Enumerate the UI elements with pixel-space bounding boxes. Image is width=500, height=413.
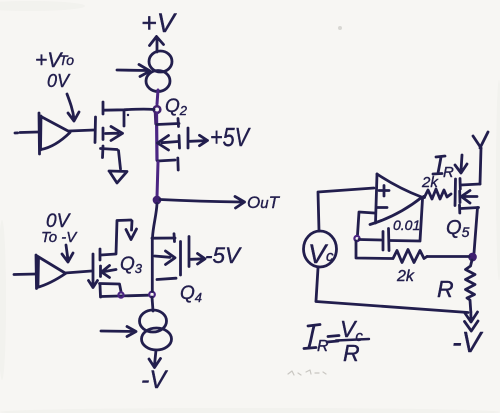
arrow IR (current direction) (455, 155, 467, 173)
wire Q1 drain to node A (104, 109, 154, 110)
resistor 2k (gate) (425, 189, 451, 199)
wire current source I1 to node A (157, 90, 158, 104)
current source I1 (117, 51, 172, 92)
svg-text:+V: +V (141, 8, 178, 38)
svg-text:OuT: OuT (247, 193, 281, 212)
annotation arrow to inverter U2 (62, 245, 73, 262)
wire Vc top to op-amp + input (318, 188, 374, 231)
wire Q5 source down to node E (474, 208, 478, 254)
wire Q2 source down to OUT node (157, 162, 158, 197)
annotation 0V To -V (41, 211, 78, 246)
gate arrow to -5V (191, 254, 205, 265)
label 2k (feedback) (396, 268, 415, 285)
wire U2 output to Q3 gate (65, 271, 92, 273)
formula IR = Vc / R (304, 316, 369, 366)
wire OUT with arrow (160, 197, 245, 209)
wire OUT node down to Q4 drain (153, 204, 158, 238)
label Q2 (165, 96, 188, 118)
op-amp U3 (370, 174, 422, 225)
mosfet Q1 (95, 102, 124, 158)
label Q4 (180, 283, 202, 305)
mosfet Q5 (455, 179, 480, 214)
label R (437, 276, 454, 302)
arrow to -V (double head) (465, 312, 479, 331)
svg-text:R: R (343, 340, 360, 366)
inverter U1 (39, 113, 70, 154)
arrow to +V (150, 37, 164, 53)
svg-text:R: R (317, 338, 329, 355)
label +5V (210, 122, 251, 152)
label OUT (247, 193, 281, 212)
label Q3 (120, 254, 143, 276)
wire U1 output to Q1 gate (69, 130, 94, 131)
wire node D to capacitor (359, 238, 381, 241)
wire Vc bottom to rail (316, 268, 318, 301)
label -V (right) (452, 327, 484, 359)
svg-text:-V: -V (452, 327, 484, 359)
output node dot (422, 195, 426, 199)
current source I2 (101, 310, 172, 350)
wire node C to current source I2 (152, 297, 153, 311)
svg-text:+5V: +5V (210, 122, 251, 152)
bottom rail to R bottom (316, 302, 468, 313)
svg-text:R: R (437, 276, 454, 302)
wire Q5 drain up (480, 148, 481, 184)
node B (118, 292, 123, 297)
resistor 2k (feedback) (393, 250, 427, 263)
wire Q1 source to ground (119, 151, 121, 170)
wire Q3 drain to node B (101, 295, 149, 296)
wire current source I2 to -V arrow (149, 350, 161, 368)
ground (open arrow) (109, 171, 127, 183)
Y fork (wire continues up) (473, 132, 488, 148)
wire capacitor to op-amp output (390, 199, 423, 241)
svg-text:-5V: -5V (205, 243, 242, 268)
svg-text:0V: 0V (47, 71, 71, 91)
inverter U2 (36, 255, 66, 289)
wire node D down to feedback resistor (356, 241, 392, 259)
node OUT (junction) (153, 196, 160, 203)
svg-text:To: To (59, 52, 74, 68)
svg-text:-V: -V (141, 366, 168, 394)
label -5V (205, 243, 242, 268)
label IR (433, 156, 454, 181)
label 0.01 (393, 217, 420, 233)
svg-text:2k: 2k (396, 268, 415, 285)
svg-text:0.01: 0.01 (393, 217, 420, 233)
label Q5 (446, 217, 470, 240)
wire feedback resistor to node E (427, 255, 469, 258)
wire input to U1 (15, 132, 38, 133)
resistor R (466, 260, 476, 312)
node E (R top junction) (469, 253, 476, 260)
node A (Q2 drain node) (154, 106, 161, 113)
label 2k (gate resistor) (421, 174, 439, 191)
mosfet Q2 (157, 119, 188, 171)
stray ink dot (127, 114, 129, 116)
node D (inverting input node) (354, 236, 359, 241)
mosfet Q4 (152, 234, 189, 292)
wire node A down (Q2 channel rail) (155, 113, 159, 160)
wire op-amp - input to node D (358, 212, 375, 235)
annotation arrow to inverter U1 (67, 94, 79, 121)
faint pencil marks (288, 370, 326, 375)
wire input to U2 (14, 273, 36, 276)
svg-text:R: R (443, 164, 454, 181)
mosfet Q3 (89, 220, 137, 297)
gate arrow to +5V (190, 135, 208, 145)
svg-text:To -V: To -V (41, 229, 78, 246)
capacitor C1 (383, 229, 389, 251)
label -V (bottom) (141, 366, 168, 394)
node C (Q4 source / current source) (149, 292, 155, 298)
source Vc (304, 231, 337, 269)
label +V (top supply) (141, 8, 178, 38)
annotation +V To 0V (35, 49, 74, 91)
